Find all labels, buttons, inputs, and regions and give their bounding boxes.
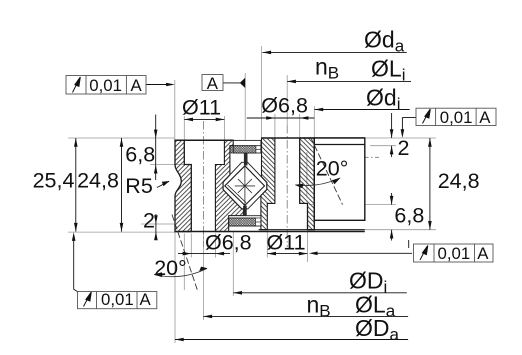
svg-text:A: A (131, 76, 143, 95)
svg-text:2: 2 (398, 136, 410, 160)
svg-text:Ø6,8: Ø6,8 (261, 94, 308, 118)
svg-text:20°: 20° (154, 256, 187, 280)
svg-text:Ø11: Ø11 (182, 96, 221, 120)
svg-text:A: A (477, 244, 489, 263)
svg-text:0,01: 0,01 (440, 108, 473, 127)
svg-text:2: 2 (143, 209, 155, 233)
svg-text:24,8: 24,8 (77, 169, 119, 193)
svg-text:ØLi: ØLi (371, 56, 405, 85)
svg-text:Ø6,8: Ø6,8 (205, 231, 252, 255)
svg-text:20°: 20° (316, 156, 349, 180)
svg-text:24,8: 24,8 (438, 169, 480, 193)
svg-text:25,4: 25,4 (33, 169, 75, 193)
svg-text:R5: R5 (125, 174, 153, 198)
svg-text:0,01: 0,01 (438, 244, 471, 263)
svg-text:Ø11: Ø11 (267, 231, 306, 255)
svg-text:0,01: 0,01 (89, 76, 122, 95)
svg-text:6,8: 6,8 (125, 142, 155, 166)
svg-text:0,01: 0,01 (101, 290, 134, 309)
svg-text:Ødi: Ødi (366, 85, 400, 114)
svg-text:A: A (207, 74, 219, 93)
svg-text:6,8: 6,8 (394, 204, 424, 228)
svg-text:A: A (479, 108, 491, 127)
svg-text:A: A (140, 290, 152, 309)
